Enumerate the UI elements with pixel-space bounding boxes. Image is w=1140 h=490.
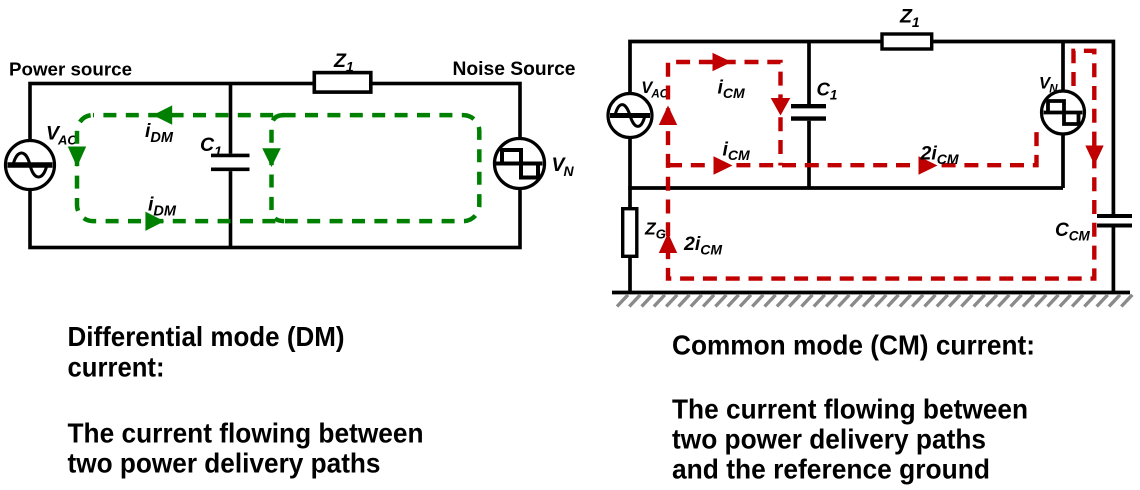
DM current loop divider (green dashed) bbox=[272, 115, 285, 221]
arrow iDM down (divider) bbox=[262, 148, 281, 167]
arrow iCM right (middle horizontal) bbox=[714, 156, 733, 174]
wire CCM lower + ground stub (right circuit) bbox=[1112, 228, 1116, 293]
arrow iDM right (bottom of loop) bbox=[145, 212, 164, 231]
svg-text:2iCM: 2iCM bbox=[920, 143, 959, 167]
DM current loop (green dashed outer) bbox=[77, 115, 479, 221]
arrow 2iCM down (right side) bbox=[1085, 146, 1103, 166]
svg-text:The current flowing between: The current flowing between bbox=[672, 393, 1028, 424]
noise source VN (left circuit) bbox=[495, 139, 545, 189]
svg-text:Z1: Z1 bbox=[333, 50, 354, 75]
capacitor CCM plates bbox=[1097, 216, 1132, 226]
svg-text:Differential mode (DM): Differential mode (DM) bbox=[68, 321, 345, 352]
arrow iCM right (top horizontal) bbox=[713, 53, 732, 71]
arrow iDM down (left side of loop 1) bbox=[68, 147, 86, 168]
wire bottom (right circuit) bbox=[628, 186, 1063, 190]
svg-text:two power delivery paths: two power delivery paths bbox=[672, 423, 986, 454]
svg-text:current:: current: bbox=[68, 352, 165, 383]
svg-text:VN: VN bbox=[552, 154, 575, 179]
arrow iDM left (top of loop) bbox=[153, 105, 172, 124]
svg-text:Z1: Z1 bbox=[899, 6, 920, 30]
svg-text:VAC: VAC bbox=[641, 79, 669, 100]
arrow iCM down (into C1) bbox=[771, 98, 791, 116]
noise source VN (right circuit) bbox=[1042, 91, 1085, 134]
svg-text:CCM: CCM bbox=[1055, 220, 1090, 244]
arrow 2iCM right (middle horizontal) bbox=[919, 156, 938, 174]
wire left-circuit outer loop bbox=[30, 84, 520, 248]
resistor Z1 (right circuit) bbox=[882, 34, 932, 49]
resistor Z1 (left circuit) bbox=[314, 73, 371, 93]
impedance ZG box bbox=[623, 209, 637, 257]
ground reference line bbox=[612, 291, 1130, 295]
svg-text:C1: C1 bbox=[200, 134, 222, 159]
svg-text:VAC: VAC bbox=[46, 123, 77, 148]
AC source VAC (right circuit) bbox=[608, 94, 652, 138]
arrow iCM up (at VAC) bbox=[659, 106, 677, 126]
capacitor C1 plates (left circuit) bbox=[211, 155, 250, 169]
wire top (right circuit) bbox=[630, 42, 1113, 215]
svg-text:The current flowing between: The current flowing between bbox=[68, 418, 424, 449]
svg-text:iCM: iCM bbox=[723, 139, 751, 163]
CM current path (red dashed): middle horizontal to VN bbox=[668, 128, 1037, 166]
svg-text:and the reference ground: and the reference ground bbox=[672, 453, 990, 484]
svg-text:two power delivery paths: two power delivery paths bbox=[68, 448, 381, 479]
wire ZG branch bbox=[628, 188, 632, 293]
arrow 2iCM up (at ZG) bbox=[659, 233, 677, 253]
svg-text:ZG: ZG bbox=[644, 219, 666, 242]
wire capacitor C1 branch (left circuit) bbox=[229, 84, 233, 248]
CM current path (red dashed): big loop through VN, CCM, ground, ZG, VAC, C1 bbox=[668, 51, 1094, 279]
svg-text:Common mode (CM) current:: Common mode (CM) current: bbox=[672, 329, 1035, 360]
svg-text:2iCM: 2iCM bbox=[683, 233, 722, 257]
AC source VAC (left circuit) bbox=[6, 141, 55, 190]
wire C1 branch (right circuit) bbox=[807, 42, 811, 189]
svg-text:iDM: iDM bbox=[145, 120, 174, 146]
svg-text:Power source: Power source bbox=[9, 59, 132, 80]
svg-text:iCM: iCM bbox=[718, 77, 746, 101]
svg-text:Noise Source: Noise Source bbox=[453, 58, 576, 80]
capacitor C1 plates (right circuit) bbox=[791, 106, 826, 118]
svg-text:VN: VN bbox=[1039, 75, 1058, 96]
wire VN branch (right circuit) bbox=[1061, 42, 1065, 189]
ground hatching bbox=[617, 295, 1132, 307]
svg-text:C1: C1 bbox=[817, 78, 838, 102]
